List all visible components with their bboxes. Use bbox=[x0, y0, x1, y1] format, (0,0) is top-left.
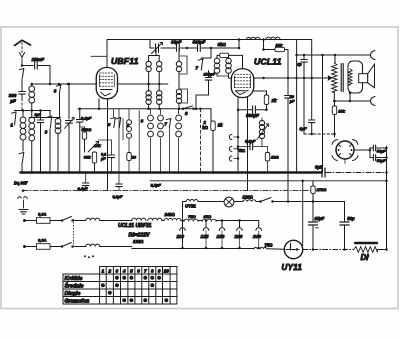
capacitor 100pF bbox=[195, 71, 216, 111]
heater Dl bar bbox=[355, 242, 377, 244]
inductor L2 upper bbox=[29, 83, 35, 117]
speaker cone bbox=[359, 64, 375, 88]
label UCL11 bbox=[254, 57, 282, 67]
svg-text:500µF: 500µF bbox=[246, 113, 259, 118]
tube UBF11 bbox=[96, 68, 117, 99]
capacitor heater bypass1 bbox=[116, 109, 122, 191]
switch mains row1 bbox=[61, 217, 74, 222]
wire x311 drop bbox=[309, 50, 315, 136]
node L1 bus bbox=[21, 171, 24, 174]
wire top rail B bbox=[150, 40, 240, 50]
label bus bbox=[14, 180, 161, 187]
wire screen drop bbox=[262, 40, 275, 51]
capacitor 20uF bbox=[78, 171, 89, 191]
terminal Gr3 bbox=[229, 156, 239, 161]
ground bbox=[19, 210, 28, 215]
svg-text:3kΩ: 3kΩ bbox=[218, 42, 227, 47]
wire UBF11 anode top bbox=[106, 40, 108, 68]
switch 5a bbox=[108, 109, 123, 199]
table header numbers bbox=[102, 268, 170, 273]
wire screen bus bbox=[32, 83, 97, 86]
svg-text:100pF: 100pF bbox=[204, 72, 216, 77]
resistor 2k cathode bbox=[254, 91, 277, 111]
wire switch gang bbox=[73, 219, 75, 245]
svg-text:pF: pF bbox=[289, 100, 295, 104]
resistor 120R bbox=[243, 195, 256, 202]
capacitor 30pF bbox=[171, 40, 182, 52]
resistor 2k grid bbox=[202, 109, 223, 174]
wire mains row2 bbox=[23, 245, 132, 248]
wire UCL11 anode bbox=[254, 76, 332, 80]
svg-text:0,1: 0,1 bbox=[101, 153, 106, 157]
svg-text:UCL11 UBF11: UCL11 UBF11 bbox=[118, 223, 152, 229]
resistor 10k screen bbox=[275, 42, 288, 95]
wire bracket bus bbox=[138, 125, 141, 174]
svg-text:2k: 2k bbox=[271, 98, 277, 103]
tube UY11 bbox=[284, 240, 302, 258]
inductor IFT2b bbox=[226, 55, 232, 78]
wire coil-bank top rail bbox=[14, 109, 50, 112]
wire heater line bbox=[22, 189, 313, 192]
wire speaker top line bbox=[295, 54, 370, 57]
inductor L3 bbox=[55, 118, 61, 174]
resistor heater UY11 bbox=[185, 200, 198, 209]
capacitor C-tune2 variable bbox=[152, 43, 163, 54]
wire eye dash bbox=[304, 133, 336, 136]
svg-text:50µF: 50µF bbox=[377, 149, 386, 153]
switch 7c bbox=[165, 119, 171, 174]
capacitor C-tune1 variable bbox=[65, 83, 75, 174]
terminal 110c bbox=[180, 228, 186, 231]
speaker frame bbox=[348, 61, 363, 93]
table grid bbox=[63, 267, 177, 305]
inductor L1 bbox=[20, 111, 26, 152]
connector bottom bbox=[371, 97, 376, 106]
transformer T1 primary bbox=[332, 55, 337, 101]
capacitor 330pF bbox=[9, 92, 26, 104]
svg-text:0,1µF: 0,1µF bbox=[81, 115, 92, 120]
wire detector line bbox=[78, 108, 211, 111]
wire row mid bbox=[132, 219, 259, 222]
wire antenna to coil rail bbox=[21, 99, 23, 111]
svg-text:0,3A: 0,3A bbox=[38, 238, 47, 243]
resistor 240R bbox=[164, 212, 181, 221]
transformer T1 secondary bbox=[348, 69, 352, 94]
svg-text:120Ω: 120Ω bbox=[243, 195, 254, 200]
choke hum1 bbox=[132, 218, 146, 220]
svg-text:kΩ: kΩ bbox=[202, 125, 208, 130]
svg-text:3: 3 bbox=[116, 268, 119, 273]
wire top rail A bbox=[107, 38, 312, 49]
choke RF1 bbox=[247, 37, 261, 39]
label UY11 bbox=[282, 263, 303, 272]
inductor L-det bbox=[123, 109, 137, 174]
label UBF11 bbox=[111, 56, 139, 66]
svg-text:R0=232V: R0=232V bbox=[129, 233, 151, 239]
capacitor 0.1 coupling bbox=[297, 55, 307, 134]
resistor 10k eye bbox=[332, 100, 345, 137]
switch 1 bbox=[11, 112, 17, 128]
svg-text:220: 220 bbox=[234, 234, 243, 239]
resistor 56k bbox=[80, 127, 92, 152]
svg-text:10k: 10k bbox=[276, 42, 283, 47]
wire to grid rail bbox=[49, 66, 51, 85]
svg-text:300pF: 300pF bbox=[193, 40, 206, 45]
svg-text:172Ω: 172Ω bbox=[317, 187, 328, 192]
wire UCL11 pin 1 bbox=[237, 98, 240, 174]
svg-text:8: 8 bbox=[151, 268, 154, 273]
transformer T1 core bbox=[341, 64, 343, 92]
inductor OSC-c bbox=[176, 109, 182, 174]
inductor L2 lower bbox=[29, 117, 35, 174]
svg-text:10: 10 bbox=[164, 268, 170, 273]
svg-text:UY11: UY11 bbox=[282, 263, 303, 272]
wire B+ feed bbox=[322, 55, 324, 173]
svg-text:50µF: 50µF bbox=[377, 159, 386, 163]
antenna bbox=[15, 40, 31, 65]
svg-text:Gr.: Gr. bbox=[239, 148, 246, 154]
wire UBF11 pin heater bbox=[107, 99, 109, 191]
svg-text:Krótkie: Krótkie bbox=[65, 276, 83, 282]
label 5 contact bbox=[127, 123, 130, 128]
label UCL11 UBF11 bbox=[118, 223, 152, 229]
tap 110 bbox=[177, 221, 209, 250]
svg-text:5: 5 bbox=[130, 268, 133, 273]
inductor IFT2a bbox=[214, 55, 220, 76]
tap 150 bbox=[217, 221, 243, 250]
node dots above table bbox=[84, 255, 94, 258]
wire eye taps bbox=[354, 148, 371, 158]
svg-text:240: 240 bbox=[252, 234, 261, 239]
switch 6 bbox=[54, 83, 61, 118]
resistor 1k bbox=[262, 147, 279, 174]
label R0 bbox=[129, 233, 151, 239]
svg-text:0,1µF: 0,1µF bbox=[113, 195, 123, 199]
svg-text:7: 7 bbox=[144, 268, 147, 273]
choke hum2 bbox=[148, 218, 162, 220]
terminal Gr2 bbox=[229, 146, 245, 154]
svg-text:Długie: Długie bbox=[65, 291, 81, 297]
svg-text:Średnie: Średnie bbox=[65, 283, 84, 290]
capacitor 0.1uF af bbox=[100, 140, 115, 174]
coil tap bracket bbox=[139, 111, 144, 125]
inductor IF2a bbox=[157, 56, 162, 86]
inductor IF1a bbox=[146, 48, 159, 85]
tap 240 label bbox=[252, 234, 261, 239]
wire UY11 anode bbox=[303, 249, 354, 251]
choke mains row1 bbox=[86, 218, 100, 220]
node antenna junction bbox=[21, 64, 24, 67]
wire B+ vert bbox=[295, 40, 298, 174]
svg-text:1µF: 1µF bbox=[300, 126, 308, 131]
svg-text:75Ω: 75Ω bbox=[265, 242, 274, 247]
svg-text:110: 110 bbox=[177, 234, 185, 239]
inductor OSC-a bbox=[176, 56, 187, 89]
svg-text:UCL11: UCL11 bbox=[254, 57, 282, 67]
svg-text:1k: 1k bbox=[218, 122, 223, 127]
capacitor 0.1uF det bbox=[77, 109, 92, 174]
svg-text:10k: 10k bbox=[338, 109, 345, 114]
svg-text:UY11: UY11 bbox=[185, 204, 196, 209]
wire AVC dash bbox=[199, 109, 202, 174]
svg-text:UBF11: UBF11 bbox=[111, 56, 139, 66]
svg-text:150: 150 bbox=[217, 234, 225, 239]
tuning eye EM bbox=[332, 140, 358, 164]
svg-text:µF: µF bbox=[100, 157, 106, 161]
svg-text:75Ω: 75Ω bbox=[188, 214, 196, 219]
fuse 0.3A row1 bbox=[37, 212, 51, 224]
wire UCL11 pin heater bbox=[247, 98, 249, 191]
inductor IFT3 bbox=[257, 118, 269, 147]
capacitor 50pF bbox=[285, 95, 296, 201]
svg-text:0,5µF: 0,5µF bbox=[151, 183, 162, 188]
capacitor 50uF a bbox=[370, 145, 387, 153]
tube UCL11 bbox=[231, 69, 254, 98]
capacitor 500uF bbox=[238, 106, 267, 118]
svg-text:Dł: Dł bbox=[361, 253, 370, 262]
svg-text:4: 4 bbox=[122, 268, 126, 273]
wire link y117 bbox=[29, 117, 61, 119]
capacitor 8uF bbox=[315, 165, 325, 177]
wire mains row1 bbox=[23, 219, 132, 222]
svg-text:9: 9 bbox=[158, 268, 161, 273]
resistor 75R tap bbox=[184, 214, 198, 221]
capacitor 30pF osc wire bbox=[178, 48, 180, 56]
capacitor 15uF bbox=[308, 202, 324, 251]
mains plug bbox=[18, 197, 28, 208]
svg-text:50µ: 50µ bbox=[347, 216, 355, 221]
inductor IF1c bbox=[148, 109, 154, 174]
svg-text:30k: 30k bbox=[84, 155, 91, 160]
svg-text:20k: 20k bbox=[93, 143, 101, 148]
svg-text:0,3A: 0,3A bbox=[38, 212, 47, 217]
svg-text:330: 330 bbox=[9, 93, 17, 98]
inductor IF1b bbox=[146, 84, 151, 110]
wire IFT bottom bbox=[217, 75, 229, 77]
terminal Gr1 bbox=[229, 134, 239, 139]
wire heater row bbox=[183, 200, 345, 203]
inductor OSC-b bbox=[176, 89, 187, 110]
svg-text:20: 20 bbox=[131, 156, 137, 160]
svg-text:85Ω: 85Ω bbox=[204, 214, 212, 219]
wire bus dashdot right bbox=[326, 171, 388, 174]
table dots bbox=[101, 276, 168, 303]
label Dl bbox=[361, 253, 370, 262]
svg-text:56kΩ: 56kΩ bbox=[82, 127, 93, 132]
capacitor 300pF bbox=[193, 40, 206, 52]
switch 3 bbox=[45, 111, 52, 174]
svg-text:Dą 907: Dą 907 bbox=[14, 180, 28, 185]
switch S-ant bbox=[19, 69, 24, 92]
wire speaker bottom bbox=[333, 93, 370, 102]
table row labels bbox=[65, 276, 90, 305]
resistor 30k bbox=[84, 152, 97, 174]
resistor Dl bbox=[354, 247, 388, 253]
wire UY11 anode feed bbox=[302, 181, 304, 246]
switch 5b bbox=[116, 118, 121, 128]
wire UBF11 pin k bbox=[98, 99, 101, 110]
capacitor 0.1uF af2 bbox=[237, 139, 262, 150]
connector top bbox=[371, 51, 376, 60]
svg-text:15mF: 15mF bbox=[32, 57, 46, 63]
svg-text:pF: pF bbox=[9, 98, 16, 103]
capacitor C-pad bbox=[35, 111, 44, 174]
tap 220 bbox=[234, 221, 262, 250]
capacitor 15mF bbox=[22, 57, 50, 69]
svg-text:0,1µF: 0,1µF bbox=[245, 139, 256, 144]
wire chassis bus heavy bbox=[21, 171, 322, 174]
svg-text:1kΩ: 1kΩ bbox=[271, 155, 279, 160]
choke RF2 bbox=[266, 37, 280, 39]
inductor IF2b bbox=[157, 84, 162, 110]
switch mains main bbox=[259, 198, 274, 203]
switch mains row2 bbox=[61, 243, 74, 248]
svg-text:30pF: 30pF bbox=[171, 40, 182, 45]
choke mains row2 bbox=[86, 244, 100, 246]
resistor 75R uy bbox=[254, 242, 273, 249]
tap 125 bbox=[201, 221, 225, 250]
svg-text:240Ω: 240Ω bbox=[164, 212, 176, 217]
wire B line bbox=[150, 180, 388, 183]
svg-text:125: 125 bbox=[201, 234, 209, 239]
inductor IF2c bbox=[158, 109, 164, 174]
lamp dial bbox=[224, 197, 234, 207]
switch 7 osc bbox=[196, 48, 212, 71]
resistor 172R bbox=[311, 181, 327, 202]
svg-text:1: 1 bbox=[102, 268, 105, 273]
fuse 0.3A row2 bbox=[37, 238, 51, 250]
wire right edge vert bbox=[385, 146, 388, 250]
resistor 120R bottom bbox=[133, 239, 144, 244]
capacitor 1uF bbox=[300, 126, 308, 131]
svg-text:120Ω: 120Ω bbox=[133, 239, 144, 244]
resistor 3k grid stop bbox=[217, 42, 243, 69]
svg-text:Gramofon: Gramofon bbox=[65, 299, 90, 305]
capacitor 50u bbox=[340, 202, 355, 251]
svg-text:15µF: 15µF bbox=[315, 216, 325, 221]
svg-text:2: 2 bbox=[108, 268, 112, 273]
resistor 85R tap bbox=[202, 214, 216, 221]
switch S7a bbox=[19, 153, 24, 173]
potentiometer 20k bbox=[88, 140, 112, 152]
svg-text:0,1µF: 0,1µF bbox=[78, 186, 89, 191]
switch 8 bbox=[182, 106, 195, 116]
svg-text:6: 6 bbox=[137, 268, 140, 273]
wire left tap vert bbox=[181, 202, 184, 250]
wire bottom heater row bbox=[132, 248, 285, 251]
wire UBF11 grid cap bbox=[91, 55, 107, 57]
capacitor 50uF b bbox=[370, 155, 387, 163]
wire screen bus right bbox=[118, 83, 168, 85]
